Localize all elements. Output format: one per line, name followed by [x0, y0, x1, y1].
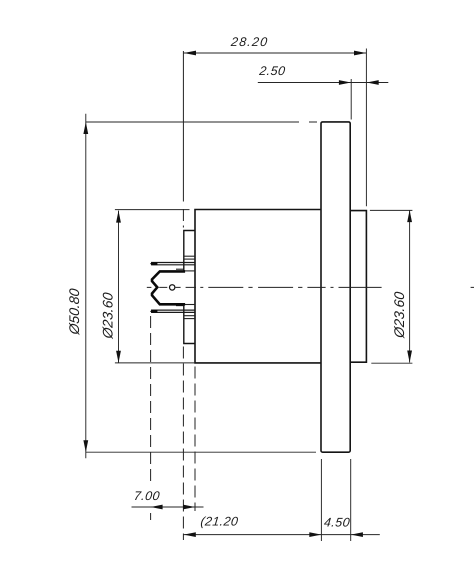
svg-text:(21.20: (21.20	[200, 515, 239, 529]
extension line nose bottom right (for D23.60 right)	[371, 362, 412, 364]
extension lines from flange edges down to 4.50 dim	[321, 459, 350, 541]
lug hole circle	[170, 285, 175, 290]
svg-text:Ø23.60: Ø23.60	[391, 291, 407, 340]
extension line flange bottom (for D50.80)	[86, 451, 316, 453]
centerline (dash-dot)	[147, 286, 474, 288]
dimension (21.20	[184, 515, 380, 537]
extension line nose top right (for D23.60 right)	[370, 209, 413, 211]
dimension D23.60 right	[391, 210, 412, 362]
connector flange (panel plate)	[321, 122, 350, 452]
svg-text:28.20: 28.20	[229, 35, 269, 49]
connector nose (front barrel)	[350, 211, 366, 363]
svg-text:Ø23.60: Ø23.60	[100, 292, 116, 341]
extension line body bottom left (for D23.60)	[115, 362, 195, 364]
dimension 7.00	[132, 489, 204, 509]
hidden/extension dashed line at rear face x=183.4	[182, 51, 184, 540]
dimension D50.80	[66, 114, 88, 459]
center contact lug (thick outline)	[152, 271, 184, 304]
extension line 2.50 left (flange right face)	[350, 79, 352, 120]
insert internal lines	[184, 256, 195, 318]
lower solder pin	[150, 306, 195, 313]
dimension 2.50	[258, 64, 389, 85]
dimension D23.60 left	[100, 211, 121, 363]
svg-text:4.50: 4.50	[323, 516, 350, 530]
extension line 28.20/2.50 right (nose tip)	[365, 49, 367, 207]
svg-text:2.50: 2.50	[258, 64, 286, 78]
connector body (rear barrel)	[195, 210, 321, 363]
svg-text:Ø50.80: Ø50.80	[66, 288, 82, 337]
dimension 4.50	[323, 516, 363, 537]
upper solder pin	[150, 262, 195, 269]
dimension 28.20	[183, 35, 366, 55]
dashed extension from pin tips x=150.6	[150, 316, 152, 520]
dashed extension from body left edge x=195	[194, 367, 196, 512]
extension line body top left (for D23.60)	[115, 209, 190, 211]
svg-text:7.00: 7.00	[133, 489, 160, 503]
extension line flange top (for D50.80)	[86, 121, 317, 123]
rear insert	[184, 231, 195, 344]
